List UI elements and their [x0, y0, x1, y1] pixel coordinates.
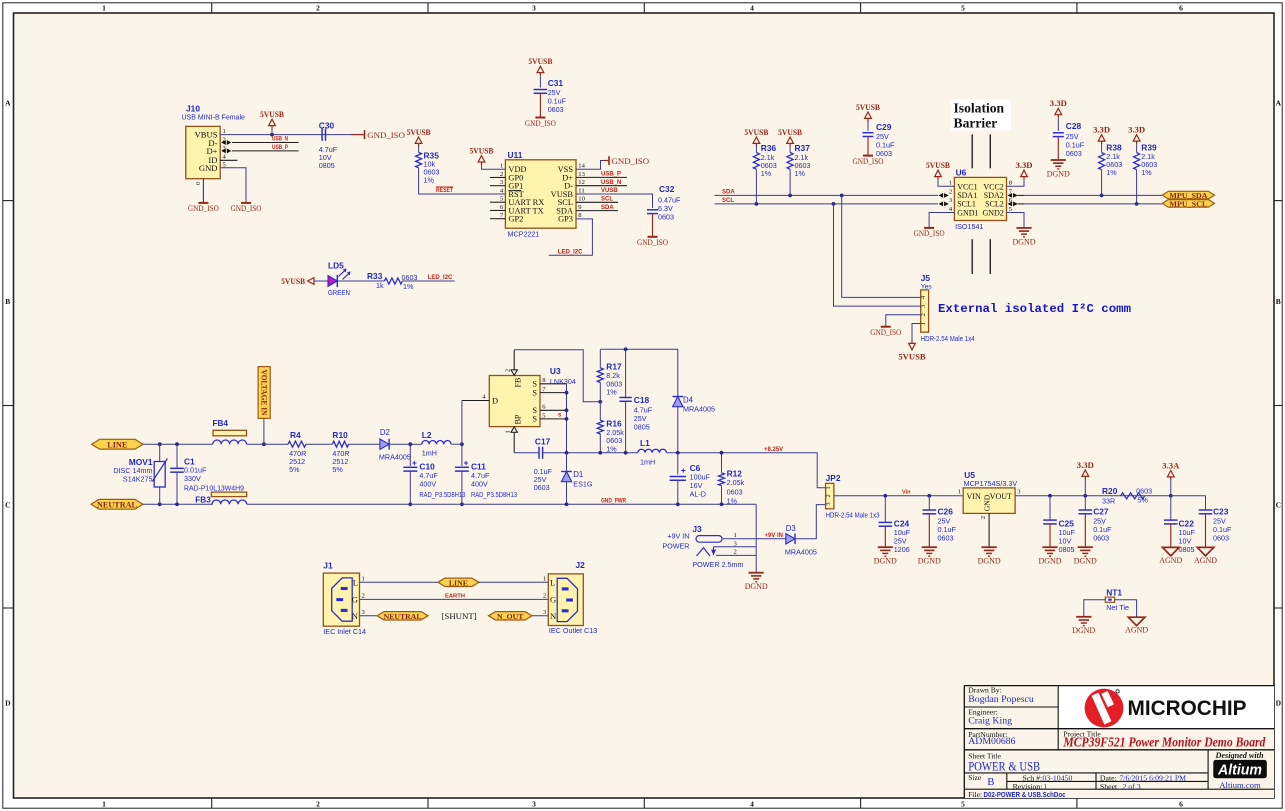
svg-text:USB_P: USB_P [601, 172, 621, 178]
junction D1 top [565, 451, 569, 455]
svg-text:2.05k: 2.05k [727, 478, 745, 487]
ic U3 body [489, 376, 540, 427]
svg-text:RAD_P3.5D8H13: RAD_P3.5D8H13 [419, 490, 465, 499]
resistor R20 [1102, 486, 1152, 505]
svg-text:MRA4005: MRA4005 [683, 404, 715, 413]
svg-text:MCP1754S/3.3V: MCP1754S/3.3V [964, 479, 1018, 488]
svg-text:GND1: GND1 [957, 208, 978, 217]
svg-text:ES1G: ES1G [573, 479, 593, 488]
svg-text:1: 1 [504, 430, 511, 433]
wire U5 GND to DGND [988, 513, 990, 547]
svg-text:DGND: DGND [1047, 169, 1070, 178]
svg-text:L: L [550, 578, 555, 588]
svg-text:0603: 0603 [1093, 533, 1109, 542]
svg-text:1: 1 [920, 322, 927, 325]
wire U11 SCL stub [576, 201, 618, 203]
svg-text:N: N [550, 611, 557, 621]
junction VOLTAGE IN tap [262, 442, 266, 446]
U6 SCL2 pin arrows [1008, 202, 1025, 207]
J2 IEC face [557, 578, 577, 621]
junction S pin7 [565, 391, 569, 395]
junction C10 node [408, 442, 412, 446]
svg-text:File:: File: [968, 790, 982, 799]
ic U6 body [954, 177, 1006, 220]
svg-text:U3: U3 [550, 366, 561, 376]
svg-text:MPU_SCL: MPU_SCL [1169, 200, 1207, 209]
svg-text:1: 1 [362, 575, 365, 582]
wire J3 pin3 [714, 546, 757, 548]
junction J5 SCL [832, 202, 836, 206]
svg-text:5%: 5% [289, 465, 300, 474]
svg-text:DGND: DGND [745, 582, 768, 591]
svg-text:VIN: VIN [967, 492, 981, 501]
power port 5VUSB at LD5 [281, 276, 314, 286]
junction C24 node [883, 494, 887, 498]
wire C31 to ground [539, 93, 541, 117]
wire FB feedback rail [514, 350, 600, 402]
svg-text:POWER & USB: POWER & USB [968, 759, 1040, 773]
svg-text:5VUSB: 5VUSB [778, 127, 802, 137]
wire J3 tip to D3 [722, 538, 786, 540]
svg-text:D02-POWER & USB.SchDoc: D02-POWER & USB.SchDoc [984, 790, 1066, 799]
wire U3 D to L2 node [461, 401, 463, 445]
svg-text:DGND: DGND [1074, 557, 1097, 566]
svg-text:B: B [5, 297, 10, 306]
power port GND_ISO at C30 [351, 130, 405, 140]
svg-text:D4: D4 [683, 396, 694, 405]
wire R39 to SCL2 [1136, 170, 1138, 204]
svg-text:1mH: 1mH [640, 458, 655, 467]
ground DGND at C27 [1078, 546, 1093, 548]
wire J1 L to LINE flag [360, 581, 438, 583]
svg-text:N: N [352, 611, 359, 621]
row letters right [1276, 99, 1282, 708]
svg-text:C27: C27 [1093, 507, 1109, 517]
U5 pin numbers [958, 489, 1021, 519]
svg-text:0603: 0603 [1213, 533, 1229, 542]
ground DGND at U5 [982, 546, 997, 548]
junction C18 top [624, 347, 628, 351]
power 5VUSB at C31 [528, 56, 552, 88]
microchip logo ball [1085, 689, 1124, 728]
svg-text:S: S [532, 380, 537, 389]
column tick marks [212, 3, 1077, 808]
resistor R4 [288, 430, 306, 474]
ground DGND at C25 [1042, 546, 1057, 548]
svg-text:11: 11 [578, 187, 584, 194]
svg-text:1: 1 [949, 180, 952, 187]
svg-text:5VUSB: 5VUSB [528, 56, 552, 66]
svg-text:LED_I2C: LED_I2C [428, 275, 453, 281]
isolation barrier line lower left [971, 239, 973, 274]
svg-text:5%: 5% [1138, 496, 1149, 505]
svg-text:GND_ISO: GND_ISO [914, 229, 945, 238]
svg-text:3.3D: 3.3D [1050, 98, 1067, 108]
wire J10 D+ stub [221, 149, 298, 154]
power 3.3D at R38 [1093, 125, 1110, 153]
svg-text:DGND: DGND [1072, 626, 1095, 635]
U6 SDA1 pin arrows [939, 193, 944, 198]
wire EARTH J1 to J2 [360, 598, 549, 600]
microchip logo cell background [1058, 686, 1274, 729]
wire SDA bus left [715, 194, 939, 196]
svg-text:5VUSB: 5VUSB [470, 145, 494, 155]
wire U6 GND1 to ground [929, 213, 954, 228]
wire J5 pin3 to SCL [834, 204, 921, 306]
svg-text:L: L [353, 578, 358, 588]
title block background [964, 686, 1274, 798]
svg-text:SDA: SDA [722, 190, 735, 196]
svg-text:IEC Outlet C13: IEC Outlet C13 [549, 626, 597, 635]
power 3.3D at VOUT [1077, 460, 1094, 496]
svg-text:DGND: DGND [1013, 237, 1036, 246]
svg-text:LED_I2C: LED_I2C [558, 249, 583, 255]
svg-text:1%: 1% [795, 169, 806, 178]
svg-text:C23: C23 [1213, 507, 1229, 517]
svg-text:SCL: SCL [601, 197, 613, 203]
svg-text:LINE: LINE [449, 578, 468, 587]
svg-text:12: 12 [578, 179, 585, 186]
wire L1 to JP2 [667, 453, 826, 488]
svg-text:2: 2 [825, 494, 832, 497]
svg-text:0603: 0603 [727, 488, 743, 497]
junction R39 SCL2 [1135, 202, 1139, 206]
svg-text:+8.25V: +8.25V [764, 447, 783, 453]
svg-text:3.3A: 3.3A [1162, 460, 1180, 470]
svg-text:1%: 1% [424, 176, 435, 185]
resistor R16 [597, 402, 624, 454]
svg-text:Size: Size [968, 773, 982, 782]
svg-text:1%: 1% [727, 496, 738, 505]
svg-text:D3: D3 [786, 524, 796, 533]
junction 3.3A node [1169, 494, 1173, 498]
svg-text:1%: 1% [1141, 168, 1152, 177]
svg-text:SDA2: SDA2 [984, 191, 1004, 200]
svg-text:BP: BP [513, 414, 522, 424]
wire SCL bus left [715, 203, 939, 205]
U6 pin numbers [949, 180, 1013, 213]
svg-text:FB3: FB3 [195, 495, 211, 504]
svg-text:USB_N: USB_N [601, 180, 621, 186]
svg-text:LD5: LD5 [328, 260, 344, 270]
svg-text:MICROCHIP: MICROCHIP [1128, 696, 1247, 720]
svg-text:[SHUNT]: [SHUNT] [442, 611, 477, 621]
U11 left pin numbers [500, 163, 504, 220]
svg-text:5VUSB: 5VUSB [856, 102, 880, 112]
svg-text:0603: 0603 [1066, 149, 1082, 158]
wire VOLTAGE IN to LINE [263, 418, 265, 444]
svg-text:USB_N: USB_N [272, 137, 288, 143]
svg-text:10: 10 [578, 196, 585, 203]
wire J5 pin1 to 5VUSB [912, 324, 921, 344]
svg-text:D: D [5, 699, 11, 708]
svg-text:R33: R33 [367, 271, 383, 281]
svg-text:L2: L2 [422, 430, 432, 440]
svg-text:GND_ISO: GND_ISO [612, 156, 650, 166]
ground AGND at C23 [1197, 547, 1214, 556]
svg-text:4: 4 [750, 4, 754, 13]
svg-text:1%: 1% [761, 169, 772, 178]
capacitor C30 [319, 121, 338, 170]
port LINE [92, 439, 143, 449]
wire J10 pin0 to ground [202, 179, 204, 203]
svg-text:GREEN: GREEN [328, 288, 350, 297]
junction D1 on GND_PWR [565, 502, 569, 506]
inductor L1 [638, 438, 667, 466]
connector J5 body [921, 290, 929, 332]
wire LINE to FB4 [143, 443, 213, 445]
svg-text:GND_PWR: GND_PWR [601, 499, 627, 505]
row tick marks [3, 201, 1282, 608]
svg-text:5%: 5% [332, 465, 343, 474]
svg-text:R38: R38 [1106, 142, 1122, 152]
svg-text:R39: R39 [1141, 142, 1157, 152]
svg-text:1%: 1% [606, 445, 617, 454]
resistor R10 [332, 430, 349, 474]
power port GND_ISO at U11 VSS [604, 156, 649, 166]
svg-text:U6: U6 [956, 168, 967, 178]
ground AGND at NT1 [1128, 617, 1145, 626]
capacitor C31 [534, 78, 567, 114]
svg-text:1mH: 1mH [422, 449, 437, 458]
junction C11 node [460, 442, 464, 446]
U11 right pin numbers [578, 163, 585, 220]
port VOLTAGE IN vertical [258, 367, 270, 419]
led LD5 [328, 260, 351, 297]
svg-text:C17: C17 [535, 436, 551, 446]
svg-text:1: 1 [500, 163, 503, 170]
svg-text:Barrier: Barrier [954, 115, 998, 130]
svg-text:GND: GND [199, 163, 218, 173]
svg-text:D: D [1276, 699, 1282, 708]
ground DGND at C28 [1051, 159, 1066, 161]
svg-text:HDR-2.54 Male 1x3: HDR-2.54 Male 1x3 [826, 512, 880, 519]
svg-text:3: 3 [532, 4, 536, 13]
svg-text:400V: 400V [419, 479, 436, 488]
capacitor C18 [619, 349, 652, 453]
svg-text:3: 3 [532, 800, 536, 809]
junction S pin6 [565, 408, 569, 412]
svg-text:R4: R4 [290, 430, 301, 440]
junction R36 on SCL [755, 202, 759, 206]
wire R36 to SCL [755, 169, 757, 204]
power 5VUSB at VBUS [260, 109, 284, 135]
J1 pin numbers [362, 575, 366, 616]
svg-text:S: S [532, 388, 537, 397]
svg-text:3.3D: 3.3D [1077, 460, 1094, 470]
wire L2 to C11 node [451, 443, 462, 445]
port MPU_SCL [1162, 200, 1214, 208]
wire R37 to SDA [789, 169, 791, 195]
svg-text:USB_P: USB_P [272, 145, 288, 151]
wire C17 to L1 [543, 452, 638, 454]
wire SDA2 bus right [1024, 194, 1162, 196]
svg-text:FB4: FB4 [213, 419, 229, 428]
J2 pin numbers [543, 575, 547, 616]
svg-text:1: 1 [734, 532, 737, 539]
capacitor C22 [1164, 496, 1195, 554]
resistor R37 [787, 143, 810, 178]
connector JP2 body [826, 483, 834, 509]
U5 pin names [967, 492, 1013, 511]
svg-text:MRA4005: MRA4005 [379, 452, 411, 461]
wire J10 ID stub [220, 159, 237, 161]
junction S pin5 [565, 417, 569, 421]
connector J1 body [323, 573, 359, 626]
wire FB4 to R4 [247, 443, 289, 445]
U11 left pin stubs [490, 177, 505, 218]
svg-text:3.3D: 3.3D [1128, 125, 1145, 135]
svg-text:C32: C32 [659, 184, 675, 194]
svg-text:A: A [5, 99, 11, 108]
junction FB divider node [598, 400, 602, 404]
capacitor C6 polarized [670, 453, 711, 505]
svg-text:D: D [492, 397, 498, 406]
svg-text:1: 1 [102, 800, 106, 809]
svg-text:C6: C6 [690, 463, 701, 473]
svg-text:VOUT: VOUT [990, 492, 1012, 501]
ground DGND at C26 [922, 546, 937, 548]
svg-text:SCL: SCL [722, 198, 734, 204]
svg-text:AGND: AGND [1194, 556, 1217, 565]
svg-text:GP3: GP3 [558, 215, 573, 224]
svg-text:0805: 0805 [1059, 545, 1075, 554]
svg-text:1%: 1% [606, 388, 617, 397]
ground AGND at C22 [1163, 547, 1180, 556]
ground GND_ISO at C31 [535, 117, 545, 119]
svg-text:ISO1541: ISO1541 [955, 222, 983, 231]
resistor R12 [719, 453, 745, 506]
isolation barrier line lower right [989, 239, 991, 274]
power 3.3D at U6 VCC2 [1007, 160, 1033, 186]
altium com link [1219, 780, 1261, 790]
svg-text:C24: C24 [894, 519, 910, 529]
capacitor C32 [647, 184, 681, 221]
svg-text:6: 6 [1179, 4, 1183, 13]
U3 S pin names and numbers [532, 377, 546, 424]
svg-text:MCP39F521 Power Monitor Demo B: MCP39F521 Power Monitor Demo Board [1063, 735, 1266, 750]
power 5VUSB at C29 [856, 102, 880, 131]
svg-text:400V: 400V [471, 479, 488, 488]
resistor R36 [753, 143, 776, 178]
svg-text:2: 2 [500, 171, 503, 178]
junction R12 top [720, 451, 724, 455]
svg-text:C18: C18 [634, 395, 650, 405]
svg-text:SDA: SDA [601, 205, 614, 211]
svg-text:1: 1 [958, 489, 961, 496]
svg-text:External isolated I²C comm: External isolated I²C comm [938, 302, 1131, 316]
ic U11 body [505, 160, 576, 228]
junction R16 bottom [598, 451, 602, 455]
svg-text:3: 3 [920, 304, 927, 307]
U6 SDA2 pin arrows [1008, 193, 1025, 198]
wire GND_PWR to J3 DGND [755, 504, 757, 572]
svg-text:RAD-P10L13W4H9: RAD-P10L13W4H9 [184, 484, 244, 493]
svg-text:3.3D: 3.3D [1093, 125, 1110, 135]
svg-text:2: 2 [920, 313, 927, 316]
wire U11 VSS to GND_ISO [576, 161, 604, 170]
svg-text:SCL1: SCL1 [957, 200, 976, 209]
capacitor C28 [1053, 121, 1085, 158]
junction R38 SDA2 [1100, 194, 1104, 198]
wire output top rail [600, 349, 678, 396]
svg-text:DGND: DGND [874, 557, 897, 566]
U6 SCL1 pin arrows [939, 202, 944, 207]
svg-text:LNK304: LNK304 [550, 377, 576, 386]
column numbers top [102, 4, 1183, 13]
wire C28 to DGND [1057, 137, 1059, 160]
svg-text:2: 2 [316, 800, 320, 809]
wire J1 N to NEUTRAL flag [360, 615, 378, 617]
svg-text:DGND: DGND [1039, 557, 1062, 566]
svg-text:POWER 2.5mm: POWER 2.5mm [692, 560, 743, 569]
svg-text:2: 2 [949, 188, 952, 195]
svg-text:GND_ISO: GND_ISO [525, 119, 556, 128]
svg-text:Net Tie: Net Tie [1106, 603, 1129, 612]
svg-text:SDA1: SDA1 [957, 191, 977, 200]
svg-text:GND2: GND2 [982, 208, 1003, 217]
svg-text:U11: U11 [508, 150, 523, 160]
svg-text:C26: C26 [938, 507, 954, 517]
capacitor C25 [1043, 496, 1075, 554]
svg-text:R10: R10 [332, 430, 348, 440]
U6 left pin names [957, 182, 978, 217]
ground GND_ISO at J5 [881, 326, 891, 328]
svg-text:0603: 0603 [534, 483, 550, 492]
wire J10 GND to ground [220, 168, 246, 203]
svg-text:C30: C30 [319, 121, 335, 131]
ground DGND at J3 [749, 572, 764, 574]
resistor R35 [416, 151, 440, 185]
isolation barrier line upper left [971, 134, 973, 168]
svg-text:GND_ISO: GND_ISO [870, 328, 901, 337]
wire U11 D+ stub [576, 176, 627, 178]
svg-text:R20: R20 [1102, 486, 1118, 496]
U3 FB pin [504, 350, 522, 388]
svg-text:MCP2221: MCP2221 [508, 230, 540, 239]
Isolation Barrier title [951, 100, 1012, 131]
svg-text:Altium.com: Altium.com [1219, 780, 1261, 790]
wire U6 GND2 to DGND [1007, 213, 1025, 228]
U11 left pin names [508, 165, 544, 224]
junction MOV1 on LINE [158, 442, 162, 446]
wire R38 to SDA2 [1101, 170, 1103, 196]
svg-text:1: 1 [543, 575, 546, 582]
net tie NT1 [1105, 587, 1129, 612]
svg-text:FB: FB [513, 378, 522, 388]
svg-text:5VUSB: 5VUSB [744, 127, 768, 137]
diode D2 [379, 428, 411, 462]
svg-text:ADM00686: ADM00686 [968, 736, 1015, 747]
junction MOV1 on NEUTRAL [158, 502, 162, 506]
wire NT1 left to DGND [1084, 600, 1106, 617]
ferrite bead FB3 [195, 492, 246, 504]
svg-text:GND_ISO: GND_ISO [367, 130, 405, 140]
resistor R17 [597, 349, 622, 402]
diode D1 [561, 453, 593, 505]
svg-text:LINE: LINE [107, 440, 128, 449]
isolation barrier line upper right [989, 134, 991, 168]
ground DGND at C24 [878, 546, 893, 548]
svg-text:C: C [5, 501, 10, 510]
connector J2 body [548, 574, 583, 626]
wire LD5 to R33 [337, 280, 384, 282]
svg-text:C25: C25 [1059, 519, 1075, 529]
svg-text:1k: 1k [376, 281, 384, 290]
junction C26 node [927, 494, 931, 498]
capacitor C24 [879, 496, 911, 554]
wire VOUT 3.3D rail [1015, 495, 1205, 497]
